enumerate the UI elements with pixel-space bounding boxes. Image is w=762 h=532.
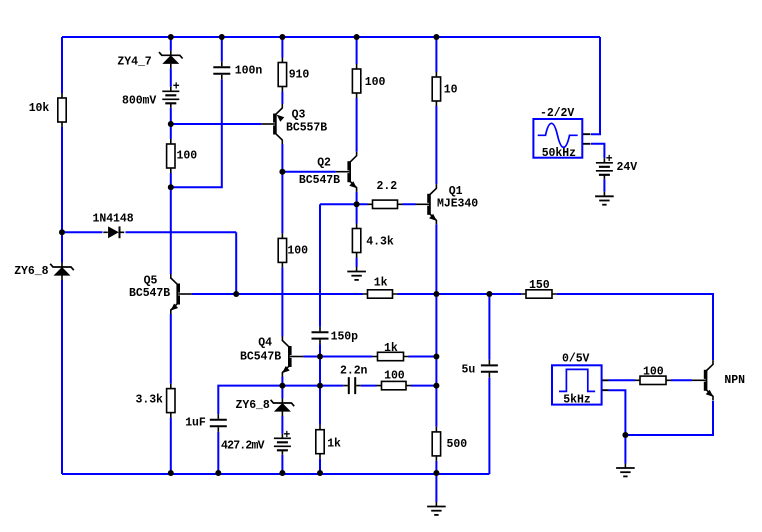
zener ZY4_7 <box>159 51 183 69</box>
wire feedback rail right of 1k <box>398 293 522 295</box>
svg-text:910: 910 <box>289 68 310 81</box>
svg-text:24V: 24V <box>617 161 638 174</box>
junction 2.2n tap <box>317 383 323 389</box>
wire corner down to 150p <box>319 204 321 329</box>
zener ZY6_8 left <box>50 263 74 281</box>
wire 427.2mV battery to bottom rail <box>281 450 283 474</box>
svg-text:1N4148: 1N4148 <box>93 213 134 226</box>
svg-text:3.3k: 3.3k <box>136 394 164 407</box>
wire 100 resistor to lower node <box>170 168 172 187</box>
wire node to 100 resistor mid <box>281 172 283 239</box>
wire node to 1uF <box>218 386 282 417</box>
svg-text:2.2: 2.2 <box>377 180 398 193</box>
svg-text:1k: 1k <box>374 277 388 290</box>
svg-text:Q4: Q4 <box>258 336 272 349</box>
svg-text:Q2: Q2 <box>317 157 331 170</box>
source V pulse 0/5V 5kHz <box>552 365 609 404</box>
diode 1N4148 <box>103 226 124 238</box>
wire 100n capacitor branch bottom <box>171 77 222 187</box>
capacitor 150p <box>312 327 329 344</box>
battery 427.2mV <box>274 434 291 455</box>
svg-text:10k: 10k <box>29 102 50 115</box>
svg-text:BC557B: BC557B <box>286 122 327 135</box>
battery 24V <box>596 158 613 179</box>
junction 800mV-100-Q3 base <box>168 121 174 127</box>
wire Q4 emitter to node <box>281 373 283 386</box>
svg-text:500: 500 <box>447 438 468 451</box>
wire node to 2.2n capacitor <box>282 385 345 387</box>
ground 4.3k <box>347 267 366 280</box>
resistor 100 NPN base <box>635 376 671 384</box>
wire diode node vertical <box>235 232 237 294</box>
ground pulse source <box>616 464 635 477</box>
resistor 100 compensation <box>377 381 412 389</box>
wire 2.2 resistor to Q1 base <box>403 203 421 205</box>
wire 150p to Q4 base node <box>319 342 321 357</box>
svg-text:ZY6_8: ZY6_8 <box>14 265 48 278</box>
wire Q1 emitter node down <box>435 294 437 432</box>
wire Q3 collector to node <box>281 140 283 172</box>
junction Q4 base - 150p <box>317 354 323 360</box>
resistor 10 <box>432 72 440 106</box>
wire node to zener ZY6_8 bottom <box>281 386 283 399</box>
svg-text:ZY4_7: ZY4_7 <box>117 56 151 69</box>
junction bottom rail - ground <box>433 470 439 476</box>
svg-text:100: 100 <box>365 76 386 89</box>
svg-text:4.3k: 4.3k <box>366 236 394 249</box>
transistor Q4 BC547B <box>282 337 303 377</box>
wire emitter return <box>625 401 713 435</box>
wire 800mV battery to node <box>170 103 172 144</box>
wire 910 to Q3 emitter <box>281 87 283 109</box>
junction pulse source ground <box>622 432 628 438</box>
resistor 100 middle <box>278 233 286 267</box>
junction Q5 base <box>233 291 239 297</box>
wire Q4 collector feedback 1k <box>320 356 373 358</box>
junction bottom rail - 3.3k <box>168 470 174 476</box>
junction 1k - Q1 emitter line <box>433 354 439 360</box>
resistor 150 <box>521 290 557 298</box>
svg-text:5kHz: 5kHz <box>563 393 591 406</box>
wire sine source minus to 24V battery <box>591 144 604 159</box>
svg-text:BC547B: BC547B <box>240 351 281 364</box>
wire left rail to 1N4148 <box>62 231 103 233</box>
ground bottom rail <box>427 502 446 515</box>
wire zener ZY4_7 branch <box>170 37 172 52</box>
wire 1N4148 to corner <box>126 231 237 233</box>
resistor 1k feedback <box>363 290 398 298</box>
junction Q4 emitter node <box>279 383 285 389</box>
transistor Q1 MJE340 <box>416 184 437 224</box>
svg-text:+: + <box>283 429 290 442</box>
svg-text:100: 100 <box>287 245 308 258</box>
svg-text:100: 100 <box>177 150 198 163</box>
wire bottom rail up to 5u <box>488 377 490 474</box>
wire top rail to sine source plus terminal <box>591 37 600 134</box>
wire Q2 emitter to node <box>356 188 358 205</box>
svg-text:BC547B: BC547B <box>299 174 340 187</box>
resistor 500 <box>432 427 440 461</box>
capacitor 1uF <box>210 414 227 431</box>
wire Q2 collector branch <box>356 37 358 69</box>
transistor Q3 BC557B <box>261 104 284 144</box>
wire 100 mid to Q4 collector <box>281 262 283 340</box>
svg-text:MJE340: MJE340 <box>437 197 478 210</box>
wire bottom rail ground stem <box>435 474 437 507</box>
wire pulse source to 100 resistor <box>609 379 636 381</box>
svg-text:1k: 1k <box>384 342 398 355</box>
resistor 2.2 <box>368 200 403 208</box>
resistor 4.3k <box>352 224 360 258</box>
source V sine -2/2V 50kHz <box>533 119 590 158</box>
resistor 3.3k <box>167 384 175 418</box>
wire 10 resistor branch <box>435 37 437 77</box>
svg-text:1uF: 1uF <box>185 417 206 430</box>
wire feedback rail <box>183 293 363 295</box>
junction bottom rail - 1k <box>317 470 323 476</box>
wire 2.2n to 100 resistor <box>359 385 377 387</box>
wire Q5 emitter to 3.3k <box>170 311 172 389</box>
svg-text:BC547B: BC547B <box>129 287 170 300</box>
junction bottom rail - 1uF <box>215 470 221 476</box>
wire Q1 emitter down to feedback rail <box>435 221 437 294</box>
svg-text:5u: 5u <box>462 364 476 377</box>
junction 100 - Q1 emitter line <box>433 383 439 389</box>
wire pulse source minus down <box>609 390 626 435</box>
capacitor 2.2n <box>343 377 360 394</box>
junction 100-100n <box>168 184 174 190</box>
svg-text:NPN: NPN <box>724 374 745 387</box>
wire Q2 emitter node to corner and 2.2 resistor <box>320 203 368 205</box>
svg-text:Q1: Q1 <box>449 185 463 198</box>
wire Q4 base node down <box>319 357 321 386</box>
wire top supply rail <box>62 36 600 38</box>
svg-text:+: + <box>173 81 180 94</box>
junction bottom rail - 427.2mV <box>279 470 285 476</box>
wire 100 resistor to Q2 collector <box>356 93 358 156</box>
svg-text:800mV: 800mV <box>122 95 156 108</box>
wire 500 to bottom rail <box>435 456 437 474</box>
svg-text:100: 100 <box>643 365 664 378</box>
wire 5u to feedback rail <box>488 294 490 360</box>
junction top rail / 100n <box>219 34 225 40</box>
wire pulse ground stem <box>624 435 626 468</box>
battery 800mV <box>162 87 179 108</box>
wire ZY4_7 to 800mV battery <box>170 68 172 92</box>
svg-text:100: 100 <box>384 370 405 383</box>
svg-text:50kHz: 50kHz <box>542 147 576 160</box>
wire 100 resistor to Q1 emitter line <box>411 385 436 387</box>
zener ZY6_8 bottom <box>271 399 295 417</box>
ground 24V <box>595 192 614 205</box>
junction top rail / 910 <box>279 34 285 40</box>
junction feedback rail - 5u <box>486 291 492 297</box>
transistor NPN output <box>692 360 713 400</box>
wire 1k to Q1 emitter line <box>409 356 437 358</box>
junction feedback rail - Q1 emitter <box>433 291 439 297</box>
wire 4.3k to ground <box>356 253 358 272</box>
wire ZY6_8 to 427.2mV battery <box>281 416 283 438</box>
svg-text:1k: 1k <box>327 437 341 450</box>
svg-text:-2/2V: -2/2V <box>540 107 574 120</box>
resistor 100 reference <box>167 139 175 173</box>
wire 100n capacitor branch top <box>221 37 223 64</box>
svg-text:2.2n: 2.2n <box>340 365 368 378</box>
transistor Q5 BC547B <box>171 274 192 314</box>
wire 3.3k to bottom rail <box>170 413 172 474</box>
wire 910 resistor branch <box>281 37 283 63</box>
wire bottom rail <box>62 473 489 475</box>
svg-text:+: + <box>606 153 613 166</box>
wire 150 to NPN collector <box>557 294 713 364</box>
resistor 1k bottom <box>316 425 324 459</box>
wire Q4 base stub <box>298 356 321 358</box>
svg-text:427.2mV: 427.2mV <box>221 439 265 452</box>
wire 1uF to bottom rail <box>217 430 219 475</box>
wire 1k bottom to rail <box>319 454 321 474</box>
svg-text:Q3: Q3 <box>292 109 306 122</box>
resistor 10k <box>58 93 66 127</box>
resistor 910 <box>278 58 286 92</box>
junction top rail / Q2 branch <box>354 34 360 40</box>
svg-text:ZY6_8: ZY6_8 <box>236 399 270 412</box>
svg-text:150p: 150p <box>331 330 359 343</box>
wire left rail <box>61 37 63 474</box>
wire node to Q3 base <box>171 123 267 125</box>
wire node to Q2 base <box>282 171 341 173</box>
svg-text:100n: 100n <box>235 65 263 78</box>
svg-text:10: 10 <box>444 84 458 97</box>
wire 100 resistor to NPN base <box>671 379 698 381</box>
svg-text:Q5: Q5 <box>144 275 158 288</box>
junction Q3 collector - Q2 base <box>279 169 285 175</box>
wire node down to Q5 collector <box>170 187 172 278</box>
svg-text:0/5V: 0/5V <box>562 353 590 366</box>
junction top rail / ZY4_7 <box>168 34 174 40</box>
wire node to 4.3k <box>356 204 358 228</box>
wire node down to 1k bottom <box>319 386 321 430</box>
junction Q2 emitter - 4.3k <box>354 201 360 207</box>
wire 24V battery to ground <box>603 175 605 197</box>
capacitor 100n <box>213 62 230 79</box>
capacitor 5u <box>481 360 498 377</box>
resistor 100 Q2 collector <box>352 64 360 98</box>
junction left rail - 1N4148 <box>59 229 65 235</box>
svg-text:150: 150 <box>529 279 550 292</box>
wire 10 resistor to Q1 collector <box>435 101 437 188</box>
junction top rail / 10 <box>433 34 439 40</box>
transistor Q2 BC547B <box>336 152 357 192</box>
resistor 1k Q4 collector <box>373 352 409 360</box>
